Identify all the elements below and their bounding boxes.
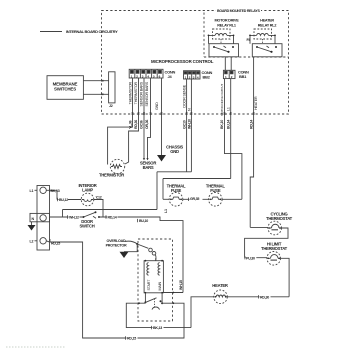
legend internal board circuitry [40, 31, 62, 33]
wire label bu10 [139, 218, 150, 222]
thermal fuse 2 [209, 193, 223, 207]
wire BB2 N down [190, 79, 192, 172]
svg-text:PROTECTOR: PROTECTOR [106, 244, 127, 248]
connector J4 [129, 69, 163, 78]
svg-text:GND: GND [170, 149, 179, 154]
svg-text:L1: L1 [30, 189, 34, 193]
svg-text:LAMP: LAMP [82, 187, 93, 192]
board mounted relays label [216, 8, 261, 13]
chassis ground symbol [157, 155, 166, 162]
connector J2 ribbon [109, 72, 115, 103]
svg-text:WH,15: WH,15 [179, 280, 183, 290]
svg-text:THERMISTOR: THERMISTOR [128, 81, 132, 104]
wire label bu12 [59, 197, 69, 201]
svg-text:PU,30: PU,30 [246, 256, 255, 260]
wire BB1 L1 down [230, 79, 232, 179]
svg-text:GY,10: GY,10 [183, 120, 187, 129]
thermostat terminal dots [268, 227, 270, 229]
relay RL2 coil [249, 29, 276, 44]
scan artifact dotted line [6, 346, 66, 348]
wire lamp right [94, 200, 103, 217]
wire to cycling thermostat [250, 226, 268, 228]
sensor bar tips [143, 158, 149, 160]
heater [214, 290, 228, 304]
crossing ticks at board edge [133, 112, 254, 115]
wire to hi limit [245, 257, 267, 259]
hi limit thermostat [267, 251, 281, 265]
wire RL1 to BB1 pin2 [230, 57, 232, 71]
wire label rd30 [260, 294, 271, 298]
svg-text:THERMOSTAT: THERMOSTAT [266, 216, 293, 221]
wire label bk13 motor [153, 325, 164, 329]
ground at N terminal [31, 222, 33, 225]
svg-text:L1: L1 [227, 107, 231, 111]
relay RL2 contacts [250, 36, 282, 57]
wire RL2 output down right side [250, 114, 253, 228]
svg-text:RD,15: RD,15 [51, 242, 60, 246]
svg-text:BB2: BB2 [203, 74, 211, 79]
door switch [83, 211, 101, 218]
svg-text:DOOR SENSE: DOOR SENSE [183, 84, 187, 107]
board mounted relays dashed box [204, 13, 289, 58]
svg-text:OR,36: OR,36 [145, 120, 149, 129]
wire fuse 2 to junction [222, 198, 242, 200]
wire L1 stub [46, 190, 57, 199]
svg-text:L2: L2 [30, 240, 34, 244]
thermal fuse 1 [163, 193, 183, 207]
svg-text:THERMISTOR: THERMISTOR [99, 173, 124, 178]
connector BB2 [184, 71, 201, 80]
membrane switches box [47, 76, 83, 100]
svg-text:RELAY RL1: RELAY RL1 [217, 24, 236, 28]
svg-text:BOARD MOUNTED RELAYS: BOARD MOUNTED RELAYS [217, 9, 260, 13]
wire BB2 door sense down [186, 79, 188, 172]
wire label rd15 bottom [127, 336, 138, 340]
svg-text:GND: GND [155, 102, 159, 110]
cycling thermostat [268, 221, 282, 235]
svg-text:MICROPROCESSOR CONTROL: MICROPROCESSOR CONTROL [151, 59, 214, 64]
svg-text:GY,36: GY,36 [140, 120, 144, 129]
svg-text:RD,36: RD,36 [134, 120, 138, 129]
wire into motor right [162, 292, 183, 294]
svg-text:J2: J2 [109, 104, 113, 108]
svg-text:BU,14: BU,14 [227, 120, 231, 129]
svg-text:BK,10: BK,10 [220, 120, 224, 129]
svg-text:YL,36: YL,36 [128, 120, 132, 129]
svg-text:RD,30: RD,30 [260, 295, 269, 299]
svg-text:BK,13: BK,13 [51, 189, 60, 193]
overload ground wire [124, 245, 137, 252]
terminal block [30, 186, 50, 251]
thermistor [110, 159, 124, 173]
svg-text:L1: L1 [164, 209, 168, 213]
interior lamp [81, 193, 94, 206]
wire heater right [227, 296, 289, 298]
svg-text:THERMISTOR: THERMISTOR [134, 81, 138, 104]
wire between fuses [183, 198, 209, 200]
wire J4 pin2 to thermistor [125, 78, 139, 164]
svg-text:RD,14: RD,14 [249, 120, 253, 129]
svg-text:RD,15: RD,15 [127, 337, 136, 341]
wire cycling thermostat right [245, 228, 288, 258]
wire J4 pin3 to sensor bars [143, 78, 145, 159]
wire RL1 to BB1 pin1 [224, 57, 226, 71]
svg-text:BB1: BB1 [239, 74, 247, 79]
wire L1 down to fuse chain [162, 179, 164, 200]
svg-text:BU,10: BU,10 [139, 219, 148, 223]
svg-text:WH,10: WH,10 [187, 119, 191, 129]
svg-text:SWITCH: SWITCH [79, 223, 94, 228]
svg-text:THERMOSTAT: THERMOSTAT [261, 246, 288, 251]
label leader ticks [50, 189, 259, 340]
wire BB1 motor drive output down [225, 79, 242, 200]
svg-text:GR,35: GR,35 [190, 197, 199, 201]
svg-text:BARS: BARS [143, 165, 154, 170]
wire label rd14 door [107, 215, 118, 219]
wire motor switch line [126, 303, 191, 327]
wire J4 pin6 to chassis ground [161, 78, 163, 155]
wire N horizontal [157, 171, 191, 173]
wire label pl30 [246, 255, 256, 259]
motor dashed box [138, 239, 173, 321]
OL to winding link [155, 258, 157, 261]
svg-text:SWITCHES: SWITCHES [54, 87, 76, 92]
wire N vertical to row [156, 172, 158, 210]
wire J4 pin1 to thermistor [108, 78, 133, 165]
wire membrane to J2 lower [83, 93, 108, 95]
svg-text:BK,13: BK,13 [153, 326, 162, 330]
motor centrifugal switch [144, 293, 172, 310]
svg-text:HEATER: HEATER [212, 283, 228, 288]
wire heater left to motor line [191, 297, 214, 328]
svg-text:HEATER: HEATER [260, 19, 274, 23]
overload ground symbol [120, 252, 129, 258]
relay RL1 coil [208, 29, 235, 44]
wire to interior lamp [57, 199, 81, 201]
svg-text:HEATER: HEATER [254, 96, 258, 110]
svg-text:BU,12: BU,12 [59, 198, 68, 202]
wire N to door switch [50, 216, 84, 218]
motor box edge crossing dots [138, 302, 140, 304]
wire label or35 [190, 196, 203, 201]
svg-text:INTERNAL BOARD CIRCUITRY: INTERNAL BOARD CIRCUITRY [66, 29, 118, 34]
wire door switch output [99, 217, 183, 293]
connector BB1 [223, 70, 235, 79]
svg-text:MAIN: MAIN [158, 282, 162, 291]
wire L2 [46, 241, 184, 338]
overload protector [125, 241, 157, 261]
wire middle row [63, 209, 158, 211]
wire RL2 output [253, 57, 255, 114]
crossing ticks membrane wires [101, 81, 104, 95]
svg-text:RD,14: RD,14 [108, 216, 117, 220]
wire L1 horizontal [163, 178, 231, 180]
svg-text:SENSOR BARS: SENSOR BARS [145, 81, 149, 106]
svg-text:WH,12: WH,12 [69, 216, 79, 220]
svg-text:OVERLOAD: OVERLOAD [107, 239, 126, 243]
start winding [147, 263, 149, 276]
svg-text:MOTOR DRIVE OUTPUT: MOTOR DRIVE OUTPUT [220, 84, 224, 116]
svg-text:START: START [147, 279, 151, 291]
svg-text:SENSOR BARS: SENSOR BARS [140, 81, 144, 106]
main winding [158, 263, 160, 276]
svg-text:MOTOR DRIVE: MOTOR DRIVE [215, 19, 240, 23]
svg-text:RELAY RL2: RELAY RL2 [258, 24, 277, 28]
wire middle row drop [62, 210, 64, 218]
outer dashed box internal board circuitry [102, 11, 289, 115]
wire membrane to J2 upper [83, 80, 108, 82]
wire hi limit to heater right [281, 258, 290, 297]
wire label wh12 [69, 215, 80, 219]
svg-text:Y,12: Y,12 [96, 196, 102, 200]
wire J4 pin4 to sensor bars [148, 78, 151, 159]
motor winding box [144, 260, 163, 294]
relay RL1 contacts [209, 36, 239, 57]
